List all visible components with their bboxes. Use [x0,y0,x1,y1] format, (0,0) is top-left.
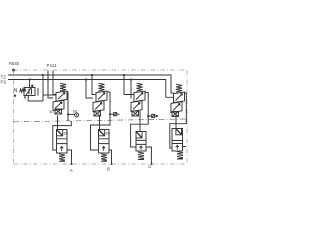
node dot T2/x124 [123,74,125,76]
wire P2 tap to valve3 [130,80,133,99]
svg-text:P2: P2 [1,79,7,84]
node dot P2/x131 [130,78,132,80]
wire valve4 bypass right [170,93,187,148]
wire x43 to valve1 [43,94,56,96]
net T2 bus line [8,75,174,93]
cartridge valve B spring [101,154,107,162]
solenoid valve section 3 pilot box diagonal [132,111,139,116]
wire valve2 down to valve B [99,116,101,130]
node dot valve1 bypass [67,113,69,115]
manifold border right (dash-dot) [186,70,188,164]
manifold border corner dot [12,69,15,72]
solenoid valve 30 (section 1) upper box [56,91,67,101]
cartridge valve D spring [177,152,183,160]
svg-text:R545: R545 [9,61,20,66]
wire valve C outlet [146,147,151,164]
cartridge valve A flow dot [60,146,63,151]
node dot port A [71,163,73,165]
solenoid valve section 2 pilot box [94,111,101,116]
orifice plug symbol valve2 [114,113,117,116]
wire valve3 down to valve C [139,111,141,132]
svg-text:N: N [14,88,18,94]
solenoid valve section 4 upper arrow [176,94,183,101]
pressure reducing valve 3 body [24,88,35,96]
wire pilot supply x48 [48,71,53,99]
pilot drain line mid (dash-dot) [14,119,188,122]
wire valve3 test branch [148,115,151,117]
node dot T2/x43 [42,74,44,76]
solenoid valve section 2 spring [99,83,105,91]
cartridge valve D inner lines [172,141,183,144]
wire P2 tap to valve2 [86,80,93,99]
node dot P2/x86 [85,78,87,80]
wire valve1 bypass right [53,92,72,150]
wire valve D outlet [183,146,187,148]
pressure reducing valve right section line [37,88,39,96]
cartridge valve B body [99,130,110,154]
svg-text:P111: P111 [47,63,57,68]
node dot P2/x48 [47,78,49,80]
pressure reducing valve 3 adjust arrow [24,85,33,98]
svg-text:60: 60 [106,131,110,135]
wire plug tick valve2 [117,113,120,115]
solenoid valve section 3 upper arrow [136,93,143,100]
cartridge valve D flow dot [176,145,179,150]
solenoid valve section 3 lower arrow [133,103,140,110]
solenoid valve section 2 upper box [96,91,107,102]
cartridge valve C inner lines [136,140,146,144]
wire T2 tap to valve2 [92,75,96,95]
solenoid valve section 4 pilot box [172,112,179,117]
solenoid valve section 3 pilot box [132,111,139,116]
wire valve2 bypass right [91,92,111,150]
solenoid valve 30 (section 1) lower box [53,100,64,110]
solenoid valve section 2 upper arrow [98,93,105,100]
wire reducing valve bottom feedback [28,96,43,102]
gauge port 60 center dot [76,114,77,115]
solenoid valve 30 (section 1) pilot box diagonal [55,109,62,114]
solenoid valve section 4 upper box [174,92,185,103]
wire T2 tap x43 down [42,75,44,101]
cartridge valve C flow dot [139,146,142,151]
cartridge valve A spring [59,154,65,162]
solenoid valve section 4 lower arrow [173,104,180,111]
cartridge valve A check square [57,130,63,136]
wire test port branch [68,113,75,115]
cartridge valve C spring [138,152,144,160]
cartridge valve A inner lines [57,139,68,144]
node dot T2/x92 [91,74,93,76]
pressure reducing valve 3 ports [29,89,32,95]
solenoid valve section 3 spring [137,83,143,91]
solenoid valve 30 (section 1) upper arrow [58,93,65,100]
solenoid valve section 4 spring [176,84,182,92]
cartridge valve C check square [136,132,142,139]
svg-text:C: C [148,164,151,169]
solenoid valve section 3 upper box [134,91,145,102]
svg-text:60: 60 [73,110,77,114]
wire valve1 down to valve A [57,116,59,130]
solenoid valve 30 (section 1) lower arrow [55,102,62,109]
net P2 bus line [8,80,174,98]
manifold border top (dash-dot) [14,69,188,71]
svg-text:A: A [70,168,73,173]
solenoid valve section 2 lower box [93,101,104,112]
node dot port B [111,163,113,165]
cartridge valve D body [172,129,183,152]
cartridge valve D check square [176,129,182,135]
wire pilot supply x53 [53,71,56,95]
svg-text:3: 3 [24,97,26,101]
solenoid valve section 3 lower box [131,101,142,112]
node dot valve2 bypass [109,113,111,115]
svg-text:30: 30 [49,110,53,114]
wire valve A outlet [67,150,72,164]
solenoid valve section 4 pilot box diagonal [172,112,179,117]
cartridge valve B flow dot [102,146,105,151]
wire valve4 down to valve D [175,112,177,129]
wire valve2 test branch [110,113,114,115]
cartridge valve B check square [99,130,105,136]
svg-text:60: 60 [64,131,68,135]
wire T2 tap to valve3 [124,75,134,95]
gauge port 60 circle [75,113,79,117]
orifice plug symbol valve3 [152,114,155,117]
solenoid valve 30 (section 1) pilot box [55,109,62,114]
node dot P2/x29.6 [29,78,31,80]
solenoid valve section 4 lower box [171,102,182,113]
pressure reducing valve 3 spring [20,89,26,92]
manifold border left (dash-dot) [13,70,15,164]
solenoid valve section 2 lower arrow [95,103,102,110]
node dot valve3 bypass [147,115,149,117]
wire valve B outlet [109,150,112,164]
cartridge valve C body [136,132,146,152]
wire reducing valve top pilot [29,80,31,88]
node dot below N [14,95,16,97]
wire plug tick valve3 [155,115,158,117]
cartridge valve B inner lines [99,139,110,144]
svg-text:B: B [107,167,110,172]
cartridge valve A body [57,130,68,154]
manifold border bottom (dash-dot) [14,163,188,165]
solenoid valve section 2 pilot box diagonal [94,111,101,116]
wire valve3 bypass right [131,93,149,148]
node dot port C [150,163,152,165]
solenoid valve 30 (section 1) spring [60,83,66,91]
